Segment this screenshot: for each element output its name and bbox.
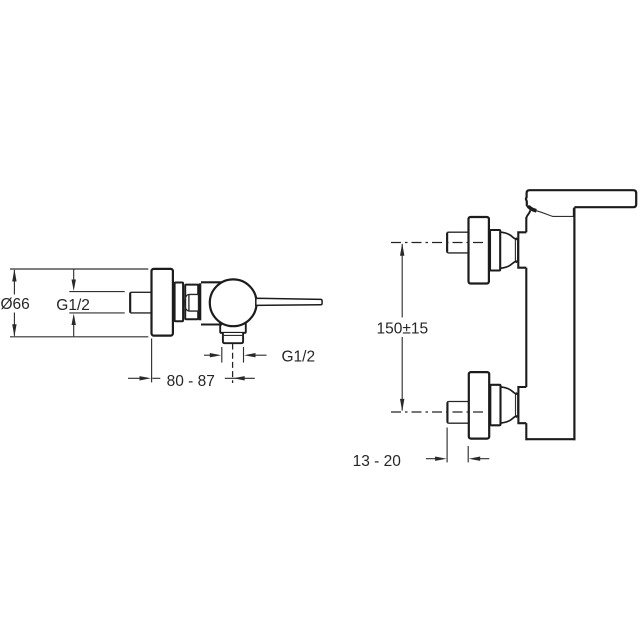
lower union: flare step into body [518,387,526,423]
lower union: neck fillet blobs [516,393,518,417]
inner detail rect with arc [185,294,199,311]
wire extension line (13-20 left) [446,428,448,463]
lower union: wall flange [469,372,489,439]
lower union: inlet square [447,402,469,424]
svg-text:G1/2: G1/2 [56,297,90,314]
upper union: inlet square [447,232,469,253]
wire extension line (80-87 at wall face) [151,339,153,383]
joint thick line [199,283,202,320]
wire extension line right (outlet G1/2) [243,347,245,363]
body top face right tick [573,208,575,217]
cap under-fillet edge [527,210,531,218]
wire extension line (13-20 right) [467,446,469,462]
dimension Ø66 line+arrows [12,269,16,337]
svg-text:Ø66: Ø66 [1,296,30,313]
upper union: neck lines [515,239,517,262]
upper union: wall flange [469,217,489,284]
upper union: neck fillet blobs [516,238,518,262]
svg-text:150±15: 150±15 [377,321,429,338]
body slab edges [526,207,576,440]
inlet square pipe G1/2 [130,292,152,313]
handle bar (top) [526,190,636,207]
lower union: collar [490,385,500,426]
dimension outlet G1/2 arrows [204,353,267,357]
left edge segments [525,217,527,232]
body ring section [185,285,198,320]
dimension 80-87 [128,376,255,380]
outlet neck [220,322,246,333]
dimension 13-20 arrows [426,457,489,461]
wire extension line bottom (Ø66) [10,336,148,338]
lower union: neck lines [516,394,518,417]
centerline dashed upper union [391,242,484,244]
bottom edge [526,438,576,440]
svg-text:G1/2: G1/2 [282,349,316,366]
collar ring [175,283,184,322]
body top face diagonal [536,211,553,217]
lever handle (side) [256,298,322,305]
wire extension line top (Ø66) [10,268,148,270]
valve housing [201,282,222,324]
dimension G1/2 inlet arrows [72,270,76,337]
upper union: collar [490,230,500,271]
wire extension line bottom (G1/2 inlet) [69,312,124,314]
dimension 150±15 [400,243,404,411]
svg-text:80 - 87: 80 - 87 [167,373,215,390]
valve knob circle [210,279,257,326]
right edge [573,207,575,440]
outlet pipe G1/2 [222,333,244,343]
centerline dashed below outlet [232,344,234,384]
cartridge cap fillet comma [527,204,536,210]
upper union: taper contours [501,232,516,268]
centerline dashed lower union [391,411,484,413]
wall flange (escutcheon, side) [152,269,173,336]
wire extension line top (G1/2 inlet) [69,291,124,293]
body slab white fill [526,209,574,439]
body top face thin line [553,215,574,217]
svg-text:13 - 20: 13 - 20 [353,453,402,470]
wire extension line left (outlet G1/2) [221,347,223,363]
upper union: flare step into body [518,232,526,267]
lower union: taper contours [501,387,516,423]
